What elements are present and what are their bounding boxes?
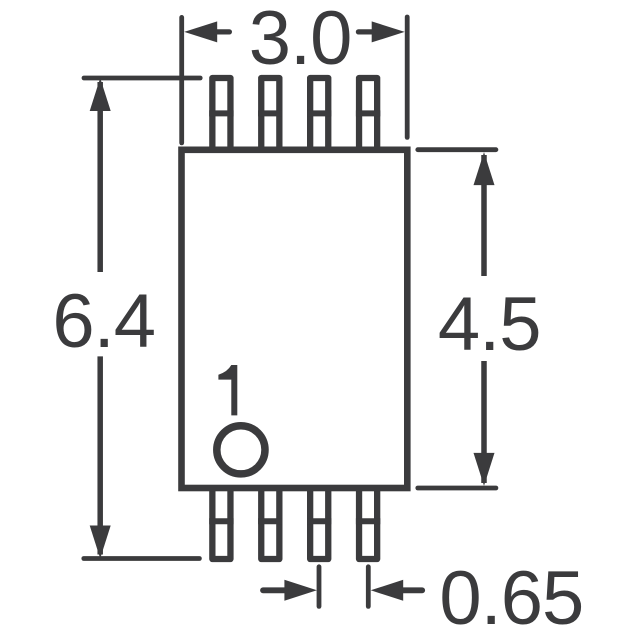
- pin 7 (top row second lead): [258, 78, 282, 151]
- pin 4 (bottom row rightmost lead): [356, 487, 380, 559]
- dim 4.5 dimension line lower segment: [481, 361, 487, 483]
- package body outline: [182, 150, 408, 488]
- dim 4.5 extension line bottom: [418, 486, 496, 491]
- dim 0.65 extension line left: [317, 567, 322, 607]
- dim 6.4 arrow up: [90, 78, 111, 111]
- dim 4.5 arrow down: [474, 453, 495, 486]
- svg-text:0.65: 0.65: [439, 556, 583, 640]
- dim 6.4 extension line top: [84, 76, 200, 81]
- pin 2 (bottom row second lead): [258, 487, 282, 559]
- svg-text:3.0: 3.0: [249, 0, 352, 81]
- dim 3.0 extension line left: [179, 17, 184, 142]
- dim 4.5 arrow up: [474, 152, 495, 185]
- pin 1 label "1": [218, 365, 237, 415]
- dim 0.65 extension line right: [366, 567, 371, 607]
- pin 1 (bottom row leftmost lead): [209, 487, 233, 559]
- pin 8 (top row leftmost lead): [209, 78, 233, 151]
- svg-text:4.5: 4.5: [438, 282, 541, 367]
- pin 3 (bottom row third lead): [307, 487, 331, 559]
- pin 6 (top row third lead): [307, 78, 331, 151]
- dim 4.5 extension line top: [418, 147, 496, 152]
- dim 6.4 dimension line upper segment: [97, 82, 103, 272]
- pin 5 (top row rightmost lead): [356, 78, 380, 151]
- dim 0.65 arrow right pointing left: [371, 580, 423, 601]
- dim 4.5 dimension line upper segment: [481, 155, 487, 276]
- dim 6.4 extension line bottom: [84, 556, 200, 561]
- dim 3.0 extension line right: [405, 17, 410, 137]
- svg-text:6.4: 6.4: [52, 279, 155, 364]
- dim 6.4 dimension line lower segment: [97, 356, 103, 554]
- dim 0.65 arrow left pointing right: [263, 580, 317, 601]
- pin 1 index marker circle: [217, 426, 265, 474]
- dim 3.0 arrow right: [358, 21, 404, 42]
- dim 6.4 arrow down: [90, 526, 111, 559]
- dim 3.0 arrow left: [184, 21, 229, 42]
